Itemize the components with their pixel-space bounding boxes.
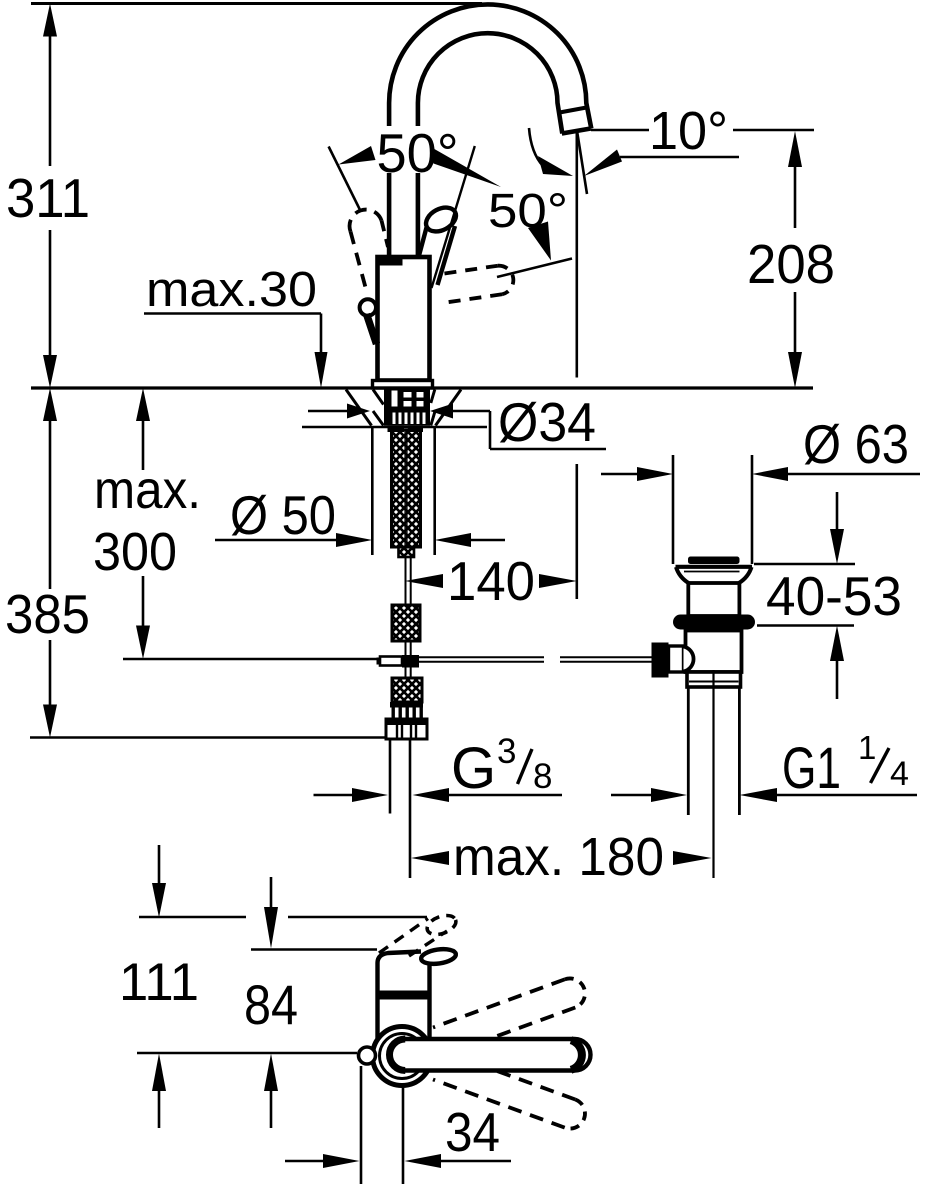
solid handle bar left heavy cap xyxy=(390,1039,406,1071)
bottom-view dark band xyxy=(378,991,430,1000)
deck hatch left 3 xyxy=(373,411,384,426)
dim dia63 right line xyxy=(788,473,920,476)
waste flare right side xyxy=(739,567,752,583)
supply pipe right line / max180 extension xyxy=(409,739,412,878)
hose lower block xyxy=(392,678,422,702)
waste coupling mid line xyxy=(689,681,739,683)
mounting block white slot mid-bot xyxy=(404,401,412,407)
waste top cap xyxy=(688,557,740,565)
10deg line right of label xyxy=(733,129,814,132)
dim max180 right arrow xyxy=(673,851,712,865)
svg-text:10°: 10° xyxy=(649,101,728,161)
body base flange xyxy=(373,381,433,389)
dim G1-1/4 left arrow xyxy=(651,788,687,802)
mounting block (black) below deck xyxy=(384,389,430,426)
svg-text:Ø34: Ø34 xyxy=(498,391,596,453)
mounting block lower tab right xyxy=(408,426,423,432)
max.30 underline xyxy=(144,312,321,315)
waste flare left side xyxy=(676,567,689,583)
svg-text:111: 111 xyxy=(119,953,199,1012)
50deg#1 left leader line xyxy=(329,147,361,212)
111 upper reference line seg1 xyxy=(139,916,246,919)
40-53 lower reference line xyxy=(757,624,854,627)
bottom-view dashed raised spout tip ellipse xyxy=(424,912,458,938)
middle handle knob ellipse xyxy=(422,203,460,237)
svg-text:311: 311 xyxy=(6,167,90,229)
spout left tube inner line (gap for 50deg text) xyxy=(416,103,421,126)
dim max300 vertical line lower segment xyxy=(142,576,145,626)
dim dia34 right arrow xyxy=(430,404,453,419)
waste rod knob (black) xyxy=(652,643,669,678)
dia34 leader vertical jog xyxy=(489,411,492,449)
spout left tube outer line (gap for 50deg text) xyxy=(387,103,392,126)
dim 111 upper vertical xyxy=(158,845,161,884)
mounting block lower tab left xyxy=(388,426,405,432)
dim 385 bottom arrow xyxy=(43,705,57,738)
faucet body xyxy=(378,257,430,381)
dim max300 vertical line upper segment xyxy=(142,421,145,470)
counter / deck line xyxy=(31,386,813,389)
10deg leader line left of label xyxy=(591,129,649,132)
ribbed connector top band xyxy=(390,702,423,708)
dim 385 top arrow xyxy=(43,388,57,421)
tee fitting left tip xyxy=(377,658,381,665)
dim G1-1/4 left line xyxy=(611,794,651,797)
dim dia63 right arrow xyxy=(752,467,788,481)
svg-text:385: 385 xyxy=(5,583,90,645)
tee fitting left sleeve xyxy=(380,657,402,666)
dim 208 vertical lower segment xyxy=(794,292,797,352)
connector nut xyxy=(386,719,427,739)
dim G3/8 right arrow xyxy=(413,788,450,802)
svg-text:84: 84 xyxy=(244,973,298,1036)
dim 34 right line xyxy=(441,1160,511,1163)
dia50 left extension line xyxy=(371,427,374,555)
dim G3/8 left arrow xyxy=(352,788,388,802)
bottom-view body left edge lower part xyxy=(375,1031,379,1038)
spout nozzle outlet face xyxy=(562,129,591,134)
waste tailpipe left line xyxy=(687,687,690,815)
dim 208 vertical upper segment xyxy=(794,167,797,228)
lower dashed handle top edge xyxy=(493,1070,575,1100)
spout nozzle band xyxy=(560,108,587,113)
lower dashed handle bottom edge xyxy=(433,1080,565,1128)
deck hatch right 2 xyxy=(431,390,435,404)
spout tip vertical extension line xyxy=(575,132,578,378)
mounting block white slot mid-top xyxy=(404,392,412,398)
svg-text:G1: G1 xyxy=(782,736,841,801)
pull rod segment 1 bottom xyxy=(419,661,544,663)
111 upper reference line seg2 xyxy=(288,916,427,919)
svg-text:Ø 63: Ø 63 xyxy=(803,413,909,475)
bottom-view dashed raised spout right edge xyxy=(409,931,447,956)
dia63 right extension line xyxy=(751,455,754,564)
waste flare brim top edge xyxy=(676,565,753,569)
hose upper block xyxy=(392,605,420,641)
upper dashed handle bottom edge xyxy=(493,1008,575,1038)
dim 34 left line xyxy=(285,1160,323,1163)
deck hatch left 1 xyxy=(346,390,372,426)
dim dia63 left arrow xyxy=(637,467,673,481)
mounting block white slot left xyxy=(392,391,398,407)
svg-text:3: 3 xyxy=(497,732,516,771)
deck hatch left 2 xyxy=(373,390,384,405)
dim 40-53 lower vertical xyxy=(836,661,839,699)
spout inner arc xyxy=(418,33,562,133)
50deg#2 leader line along lowered handle axis xyxy=(497,259,572,278)
dim max180 left arrow xyxy=(411,851,449,865)
waste center line xyxy=(712,670,714,878)
dia50 right extension line xyxy=(433,427,436,555)
threaded shank lower narrow tip xyxy=(399,547,415,557)
lower dashed handle cap xyxy=(565,1100,585,1129)
left dashed handle left edge xyxy=(351,232,368,294)
dim 34 left arrow xyxy=(323,1154,360,1168)
dim dia50 right arrow xyxy=(435,533,471,547)
svg-text:1: 1 xyxy=(858,729,876,766)
dim max300 bottom arrow xyxy=(136,626,150,660)
right dashed handle (lowered) top edge xyxy=(436,266,498,275)
deck underside line xyxy=(302,426,487,429)
svg-text:40-53: 40-53 xyxy=(766,565,902,627)
right dashed handle bottom edge xyxy=(440,294,502,303)
shank center dark strip xyxy=(404,430,407,547)
bottom-view spout tip ellipse (solid) xyxy=(420,947,457,966)
left dashed handle right edge xyxy=(382,221,389,248)
rod stub below tee xyxy=(405,668,407,679)
svg-text:208: 208 xyxy=(747,233,835,295)
dim 111 bottom arrow xyxy=(152,1054,166,1092)
10deg lower horizontal line xyxy=(620,156,739,159)
40-53 upper reference line xyxy=(754,563,855,566)
pull rod segment 2 top xyxy=(560,656,652,658)
dim max300 top arrow xyxy=(136,388,150,421)
handle pivot pin stem xyxy=(367,314,377,344)
dim 208 bottom arrow xyxy=(788,352,802,388)
nut divider 4 xyxy=(415,725,417,739)
34 left extension line xyxy=(360,1066,363,1184)
spout tip tilted 10deg line xyxy=(577,132,587,194)
dim 111 lower vertical xyxy=(158,1091,161,1128)
dim 34 right arrow xyxy=(405,1154,442,1168)
supply pipe left line xyxy=(389,739,392,814)
dim 140 left arrow xyxy=(405,574,443,588)
34 right extension line xyxy=(402,1086,405,1184)
svg-text:8: 8 xyxy=(533,757,552,796)
dim dia63 left line xyxy=(601,473,637,476)
nut divider 3 xyxy=(410,725,412,739)
bottom-view pin circle xyxy=(359,1047,376,1064)
waste rod sleeve bulge xyxy=(684,647,694,672)
svg-text:G: G xyxy=(451,736,496,801)
solid handle bar xyxy=(390,1039,591,1071)
shank center line left xyxy=(405,557,407,605)
middle handle (solid) left edge xyxy=(419,228,427,258)
dim 311 bottom arrow xyxy=(43,355,57,388)
dim dia50 left arrow xyxy=(336,533,372,547)
svg-text:34: 34 xyxy=(445,1101,500,1163)
solid handle bar right heavy cap xyxy=(571,1040,582,1070)
dim 111 top arrow xyxy=(152,883,166,918)
deck hatch right 1 xyxy=(436,390,462,426)
svg-text:300: 300 xyxy=(93,522,177,582)
rod stub above tee xyxy=(405,641,407,655)
dim 84 lower vertical xyxy=(270,1091,273,1128)
50deg#2 arrowhead xyxy=(528,222,551,261)
dim 385 vertical line upper segment xyxy=(49,421,52,589)
svg-text:max.: max. xyxy=(94,460,201,520)
dim G1-1/4 underline xyxy=(777,794,917,797)
dim dia50 right line xyxy=(471,539,505,542)
dim 84 top arrow xyxy=(264,907,278,949)
handle pivot pin circle xyxy=(360,299,376,315)
bottom-view dashed raised spout left edge xyxy=(379,919,428,954)
dim 208 top arrow xyxy=(788,131,802,167)
84 upper reference line xyxy=(251,948,377,951)
dim 311 top arrow xyxy=(43,4,57,37)
waste lower body xyxy=(686,631,742,673)
10deg arrowhead (right, pointing to tilted line) xyxy=(584,150,622,177)
swivel curved arrow arc xyxy=(529,128,543,166)
waste upper barrel xyxy=(688,583,739,616)
bottom-view body outline top xyxy=(378,952,422,1032)
nut divider 2 xyxy=(401,725,403,739)
dim dia34 left line xyxy=(308,410,347,413)
max.30 leader vertical xyxy=(320,314,323,356)
deck hatch right 3 xyxy=(431,412,435,426)
dim 140 right arrow xyxy=(539,574,577,588)
svg-text:140: 140 xyxy=(447,550,535,612)
max300 bottom reference line xyxy=(123,658,378,661)
mounting block white slot right-bot xyxy=(417,401,424,407)
middle handle (solid) right edge xyxy=(438,226,456,285)
svg-text:Ø 50: Ø 50 xyxy=(230,484,336,546)
dim G1-1/4 right arrow xyxy=(740,788,778,802)
shank center line right xyxy=(410,557,412,605)
dim dia50 left line xyxy=(215,539,338,542)
fraction slash G3/8 xyxy=(518,749,533,784)
swivel arrow head (left, pointing to vertical line) xyxy=(538,156,573,176)
dia63 left extension line xyxy=(672,455,675,564)
waste bottom coupling xyxy=(687,672,741,687)
max.30 arrow onto deck xyxy=(315,352,328,388)
dim 385 vertical line lower segment xyxy=(49,640,52,705)
spout outer arc xyxy=(389,4,591,128)
left dashed handle (raised position) cap xyxy=(350,210,382,232)
50deg#1 right leader line xyxy=(432,146,475,288)
dim 84 upper vertical xyxy=(270,877,273,908)
140 right extension line (below spout tip) xyxy=(575,464,578,599)
50deg#1 left arrowhead xyxy=(339,146,376,165)
body top cap black segment xyxy=(376,256,403,266)
svg-text:50°: 50° xyxy=(488,185,568,238)
threaded shank body xyxy=(392,430,421,547)
dim dia34 right line xyxy=(453,410,490,413)
dim 311 vertical line lower segment xyxy=(49,230,52,356)
top reference line (311 upper extension) xyxy=(31,2,482,5)
dim G3/8 left line xyxy=(314,794,353,797)
bottom-view lower reference line xyxy=(137,1052,357,1055)
mounting block white slot right-top xyxy=(417,392,424,398)
right dashed handle cap xyxy=(498,266,513,295)
dim 40-53 up arrow xyxy=(830,626,844,662)
waste rod knob sleeve xyxy=(669,646,684,672)
svg-text:4: 4 xyxy=(890,755,909,793)
dim 40-53 down arrow xyxy=(830,529,844,564)
dim 84 bottom arrow xyxy=(264,1054,278,1092)
nut divider 1 xyxy=(396,725,398,739)
knurled nut white stripes xyxy=(393,413,396,425)
bottom-view body right edge xyxy=(427,952,431,1038)
mounting escutcheon inner circle xyxy=(380,1034,425,1079)
pull rod segment 2 bottom xyxy=(560,661,652,663)
tee fitting black block xyxy=(402,655,419,668)
fraction slash G1-1/4 xyxy=(871,748,890,783)
svg-text:max. 180: max. 180 xyxy=(453,827,664,887)
ribbed connector ribs xyxy=(392,708,395,720)
mounting escutcheon outer circle xyxy=(373,1027,432,1086)
svg-text:max.30: max.30 xyxy=(146,263,317,317)
dim 40-53 upper vertical xyxy=(836,492,839,530)
50deg#1 right arrowhead xyxy=(430,147,501,188)
upper dashed handle cap xyxy=(565,978,585,1007)
waste flare inner line xyxy=(684,571,740,573)
dim 311 vertical line upper segment xyxy=(49,30,52,166)
dim G3/8 underline xyxy=(449,794,562,797)
waste tailpipe right line xyxy=(738,687,741,815)
nut top band xyxy=(386,719,427,725)
385 bottom reference line xyxy=(30,736,386,739)
upper dashed handle top edge xyxy=(433,979,565,1027)
waste o-ring xyxy=(673,615,755,630)
dim dia34 left arrow xyxy=(347,404,370,419)
dia34 underline xyxy=(490,448,606,451)
pull rod segment 1 top xyxy=(419,656,544,658)
